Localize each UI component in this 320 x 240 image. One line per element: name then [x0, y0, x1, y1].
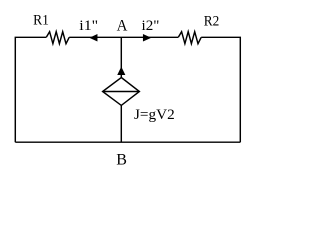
svg-text:i1": i1"	[79, 18, 98, 34]
svg-text:R1: R1	[33, 13, 49, 29]
svg-text:J=gV2: J=gV2	[134, 107, 175, 123]
wire: center vertical from current source to bottom	[120, 105, 122, 142]
arrowhead i2" (points right)	[143, 35, 150, 41]
resistor R1	[46, 32, 69, 44]
wire: center vertical from node A to current source	[120, 37, 122, 78]
wire: bottom side (node B)	[15, 141, 240, 143]
dependent current source J diamond	[103, 78, 140, 106]
svg-text:B: B	[116, 152, 127, 169]
wire: left side (node A loop left)	[15, 37, 46, 142]
wire: top middle between R1 and R2 through node A	[69, 36, 178, 38]
resistor R2	[178, 32, 201, 44]
wire: top right corner and right side	[201, 37, 240, 142]
current source arrow (points up)	[118, 67, 125, 74]
svg-text:R2: R2	[204, 13, 220, 29]
arrowhead i1" (points left)	[90, 35, 97, 41]
svg-text:i2": i2"	[142, 18, 160, 34]
svg-text:A: A	[117, 18, 128, 35]
